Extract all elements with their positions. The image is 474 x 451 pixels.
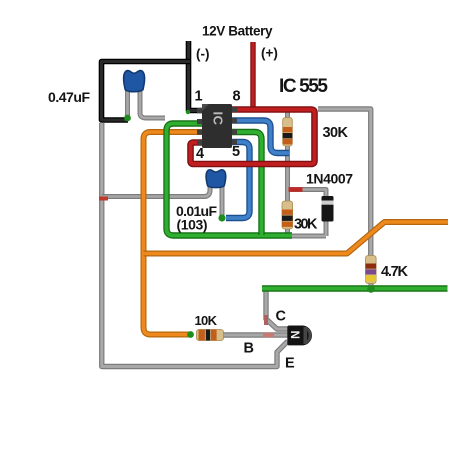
svg-text:1N4007: 1N4007 [306, 171, 353, 187]
svg-text:C: C [276, 309, 287, 325]
svg-text:(103): (103) [177, 217, 208, 233]
svg-text:4.7K: 4.7K [381, 264, 409, 280]
svg-text:(-): (-) [196, 47, 210, 62]
svg-text:30K: 30K [323, 125, 349, 141]
svg-text:IC: IC [211, 112, 226, 126]
svg-text:30K: 30K [294, 217, 318, 233]
svg-text:4: 4 [196, 146, 204, 162]
svg-text:5: 5 [232, 144, 240, 160]
svg-text:(+): (+) [261, 46, 278, 61]
svg-text:12V Battery: 12V Battery [202, 24, 273, 39]
svg-text:E: E [285, 356, 295, 372]
svg-text:1: 1 [195, 89, 203, 105]
svg-text:N: N [288, 331, 300, 339]
svg-text:8: 8 [233, 89, 241, 105]
svg-text:IC 555: IC 555 [279, 76, 328, 97]
svg-text:0.47uF: 0.47uF [48, 89, 90, 105]
svg-text:B: B [244, 341, 254, 357]
svg-text:10K: 10K [195, 313, 218, 328]
